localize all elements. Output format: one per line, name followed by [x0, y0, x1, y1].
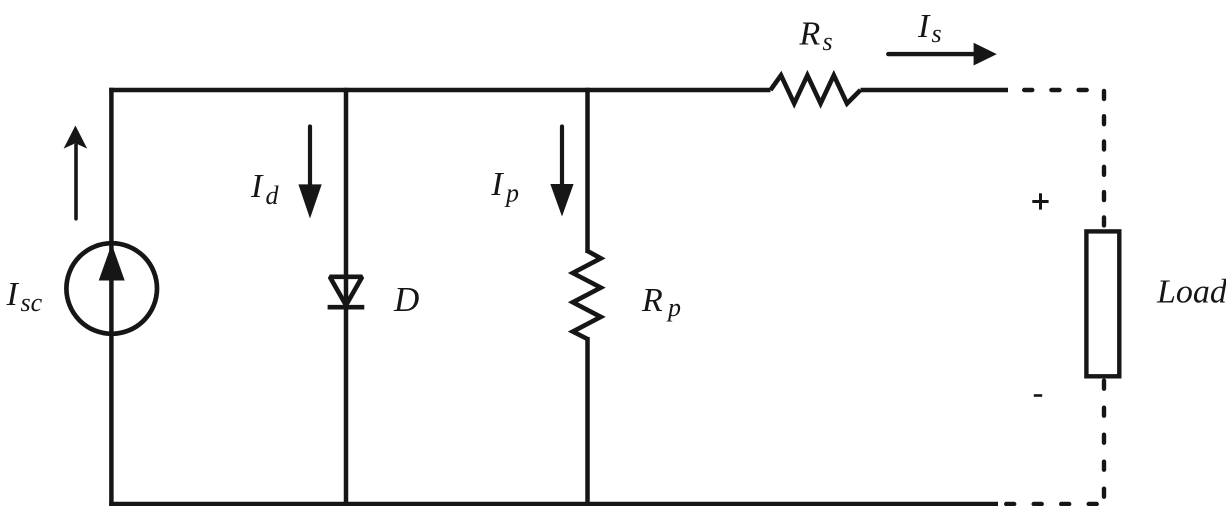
load rectangle [1086, 231, 1119, 376]
svg-text:s: s [823, 27, 833, 56]
label minus sign [1034, 394, 1042, 397]
wire right dashed lower [1102, 381, 1106, 504]
wire top bus (right of Rs) [861, 88, 1009, 92]
wire right dashed upper [1102, 91, 1106, 229]
svg-text:R: R [641, 282, 663, 319]
wire Rp branch lower [585, 337, 590, 506]
Is current arrow shaft [888, 52, 976, 56]
svg-text:Load: Load [1156, 274, 1226, 311]
wire left branch [109, 88, 114, 506]
resistor Rs [771, 75, 861, 103]
svg-text:p: p [504, 179, 519, 208]
label plus sign [1032, 200, 1048, 203]
current source internal arrowhead [99, 244, 125, 281]
diode D triangle [330, 277, 362, 305]
Id current arrow shaft [308, 127, 312, 189]
svg-text:s: s [932, 19, 942, 48]
wire bottom dashed segment [1006, 502, 1097, 506]
svg-text:d: d [266, 181, 280, 210]
svg-text:p: p [666, 293, 681, 322]
wire top dashed segment [1024, 88, 1104, 92]
svg-text:sc: sc [21, 288, 43, 317]
current source Isc circle [66, 243, 157, 334]
svg-text:I: I [917, 8, 931, 45]
diode D cathode bar [328, 305, 365, 310]
resistor Rp [573, 251, 601, 339]
wire Rp branch upper [585, 88, 590, 253]
Ip current arrow shaft [560, 127, 564, 189]
svg-text:I: I [250, 168, 264, 205]
wire top bus (left of Rs) [109, 88, 770, 92]
Is current arrowhead [974, 43, 997, 66]
svg-text:I: I [490, 166, 504, 203]
svg-text:I: I [6, 276, 20, 313]
Ip current arrowhead [550, 184, 573, 217]
svg-text:R: R [799, 16, 821, 53]
Isc direction arrowhead [64, 126, 88, 149]
Id current arrowhead [298, 184, 321, 218]
Isc direction arrow shaft [74, 145, 78, 219]
wire diode branch [344, 88, 349, 506]
wire bottom bus [109, 502, 998, 506]
svg-text:D: D [393, 280, 419, 319]
